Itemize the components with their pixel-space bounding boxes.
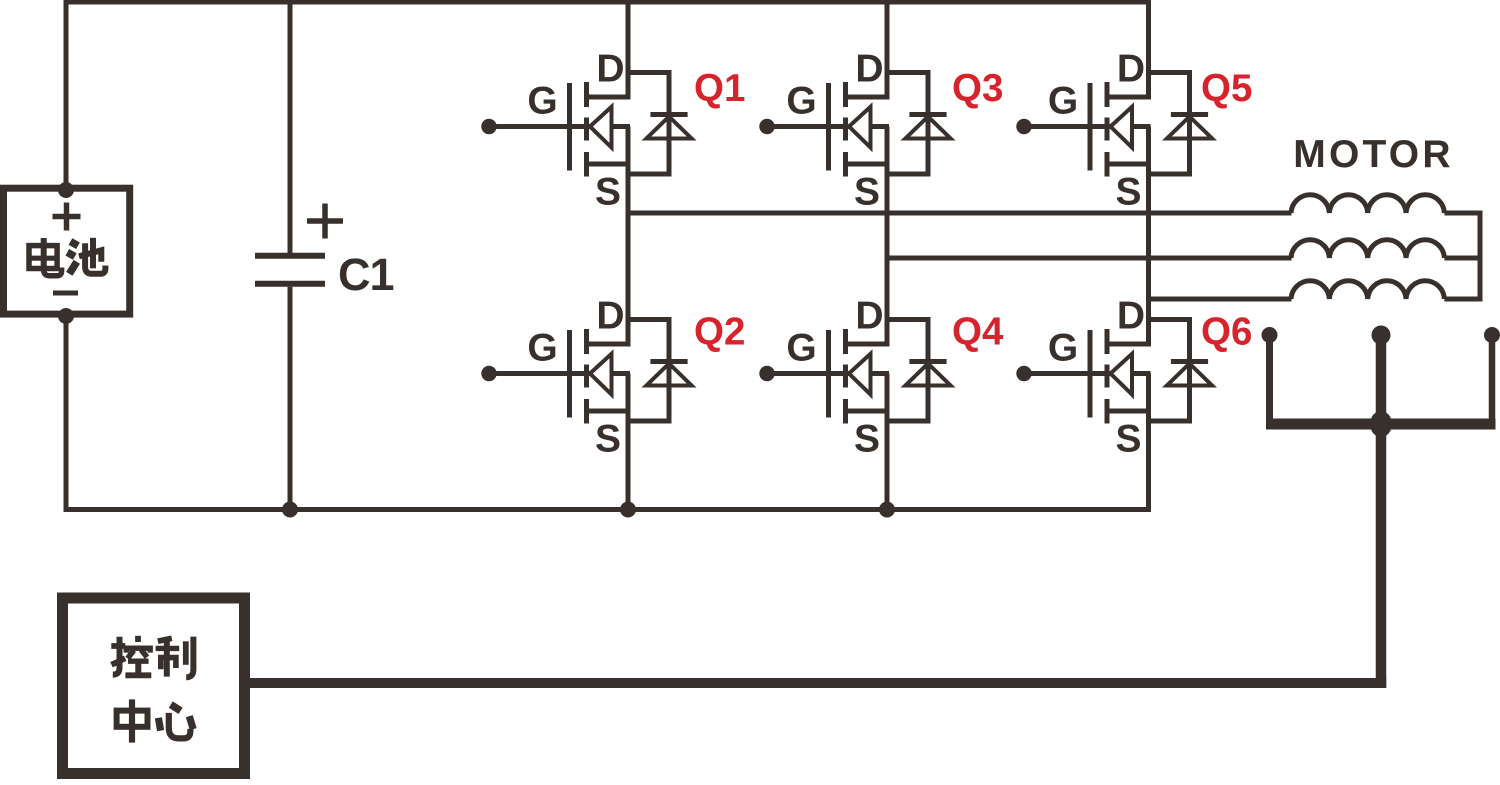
node Q1 gate terminal — [481, 119, 496, 134]
battery label 电 glyph — [27, 238, 62, 276]
wire Q5 gate lead — [1024, 124, 1151, 129]
wire winding C to star point — [1444, 297, 1482, 302]
C1 plus sign — [307, 204, 343, 239]
node Q4 gate terminal — [759, 366, 774, 381]
Q1 gate electrode bar — [567, 83, 572, 171]
control label 控 glyph — [111, 636, 151, 676]
svg-text:G: G — [786, 80, 816, 123]
Q5 gate electrode bar — [1088, 83, 1093, 171]
Q6 drain stub — [1107, 342, 1151, 347]
Q1 channel dashes — [584, 82, 589, 177]
transistor Q3 N-MOSFET — [759, 48, 1003, 214]
motor winding phase B inductor — [1291, 240, 1444, 258]
Q2 drain stub — [587, 342, 631, 347]
Q5 channel dashes — [1105, 82, 1110, 177]
body diode of Q4 — [887, 317, 951, 424]
body diode of Q3 — [887, 70, 951, 177]
node battery - terminal — [58, 308, 74, 324]
Q4 body arrow — [849, 354, 871, 395]
battery label 池 glyph — [67, 238, 105, 274]
wire battery negative to bottom bus — [64, 312, 69, 512]
svg-text:S: S — [595, 171, 621, 214]
body diode of Q1 — [628, 70, 692, 177]
node sense tap phase A — [1262, 327, 1278, 343]
Q5 body arrow — [1111, 107, 1133, 148]
Q2 body arrow — [590, 354, 612, 395]
node Q2 gate terminal — [481, 366, 496, 381]
battery minus sign — [53, 291, 78, 296]
wire Q3 drain from top bus — [885, 0, 890, 100]
svg-text:S: S — [854, 418, 880, 461]
svg-text:D: D — [855, 295, 883, 338]
wire winding A to star point — [1444, 211, 1482, 216]
wire sense bus horizontal — [1266, 419, 1496, 430]
node sense tap phase B — [1372, 326, 1391, 345]
wire Q6 source to bottom bus — [1146, 374, 1151, 513]
transistor Q1 N-MOSFET — [481, 48, 745, 214]
wire battery positive to top bus — [64, 0, 69, 192]
wire motor star point vertical — [1478, 211, 1483, 302]
svg-text:S: S — [595, 418, 621, 461]
wire winding B to star point — [1444, 256, 1482, 261]
Q4 drain stub — [846, 342, 890, 347]
control label 心 glyph — [158, 705, 193, 739]
Q5 drain stub — [1107, 95, 1151, 100]
wire C1 top — [288, 0, 293, 253]
node Q6 gate terminal — [1016, 366, 1031, 381]
svg-text:D: D — [1117, 295, 1145, 338]
battery 电池 — [4, 182, 130, 324]
svg-text:D: D — [1117, 48, 1145, 91]
Q4 source stub — [846, 409, 890, 414]
svg-text:G: G — [527, 327, 557, 370]
svg-text:Q1: Q1 — [694, 67, 745, 110]
svg-text:D: D — [596, 48, 624, 91]
wire phase B from Q3/Q4 node to motor — [887, 256, 1292, 261]
svg-text:D: D — [596, 295, 624, 338]
Q6 body arrow — [1111, 354, 1133, 395]
Q6 source stub — [1107, 409, 1151, 414]
Q4 channel dashes — [843, 329, 848, 424]
control label 制 glyph — [156, 637, 194, 678]
svg-text:S: S — [1115, 418, 1141, 461]
wire phase C from Q5/Q6 node to motor — [1149, 297, 1292, 302]
wire Q2 gate lead — [489, 371, 630, 376]
wire Q4 source to bottom bus — [885, 374, 890, 513]
transistor Q4 N-MOSFET — [759, 295, 1004, 461]
node Q4 source / V- junction — [879, 502, 895, 518]
battery plus sign — [53, 203, 81, 231]
body diode of Q5 — [1149, 70, 1213, 177]
Q4 gate electrode bar — [826, 330, 831, 418]
svg-text:G: G — [1048, 327, 1078, 370]
Q6 gate electrode bar — [1088, 330, 1093, 418]
control label 中 glyph — [117, 699, 148, 742]
svg-text:Q5: Q5 — [1201, 67, 1252, 110]
wire sense line phase B down to control wire — [1376, 335, 1387, 688]
motor winding phase C inductor — [1291, 281, 1444, 299]
svg-text:MOTOR: MOTOR — [1293, 133, 1453, 176]
C1 bottom plate — [255, 281, 325, 287]
wire Q2 source to bottom bus — [626, 374, 631, 513]
Q3 body arrow — [849, 107, 871, 148]
Q3 channel dashes — [843, 82, 848, 177]
Q2 gate electrode bar — [567, 330, 572, 418]
Q5 source stub — [1107, 162, 1151, 167]
Q2 channel dashes — [584, 329, 589, 424]
node Q2 source / V- junction — [620, 502, 636, 518]
wire control center to sense junction — [248, 678, 1387, 688]
wire Q1 source to Q2 drain — [626, 127, 631, 347]
svg-text:S: S — [1115, 171, 1141, 214]
wire sense line phase C — [1489, 335, 1496, 430]
svg-text:Q4: Q4 — [952, 311, 1004, 354]
Q1 drain stub — [587, 95, 631, 100]
transistor Q5 N-MOSFET — [1016, 48, 1252, 214]
node C1 / V- junction — [282, 502, 298, 518]
node Q5 gate terminal — [1016, 119, 1031, 134]
body diode of Q2 — [628, 317, 692, 424]
node sense bus junction — [1370, 411, 1392, 437]
motor winding phase A inductor — [1291, 195, 1444, 213]
wire C1 bottom — [288, 287, 293, 511]
node sense tap phase C — [1484, 327, 1500, 343]
Q6 channel dashes — [1105, 329, 1110, 424]
transistor Q2 N-MOSFET — [481, 295, 745, 461]
C1 top plate — [255, 253, 325, 259]
transistor Q6 N-MOSFET — [1016, 295, 1252, 461]
Q3 drain stub — [846, 95, 890, 100]
wire sense line phase A — [1266, 335, 1273, 430]
node Q3 gate terminal — [759, 119, 774, 134]
wire Q1 gate lead — [489, 124, 630, 129]
wire bottom bus V- rail — [64, 507, 1152, 512]
control unit 控制中心 box — [63, 598, 245, 774]
Q3 source stub — [846, 162, 890, 167]
wire Q5 source to Q6 drain — [1146, 127, 1151, 347]
Q1 body arrow — [590, 107, 612, 148]
svg-text:G: G — [786, 327, 816, 370]
Q3 gate electrode bar — [826, 83, 831, 171]
Q2 source stub — [587, 409, 631, 414]
body diode of Q6 — [1149, 317, 1213, 424]
svg-text:C1: C1 — [338, 249, 394, 300]
wire Q4 gate lead — [767, 371, 889, 376]
wire top bus V+ rail — [64, 0, 1152, 5]
wire phase A from Q1/Q2 node to motor — [628, 211, 1292, 216]
svg-text:Q2: Q2 — [694, 311, 745, 354]
svg-text:Q3: Q3 — [952, 67, 1003, 110]
wire Q6 gate lead — [1024, 371, 1151, 376]
capacitor C1 — [255, 0, 394, 511]
Q1 source stub — [587, 162, 631, 167]
svg-text:Q6: Q6 — [1201, 311, 1252, 354]
wire Q1 drain from top bus — [626, 0, 631, 100]
svg-text:G: G — [1048, 80, 1078, 123]
svg-text:S: S — [854, 171, 880, 214]
wire Q3 source to Q4 drain — [885, 127, 890, 347]
node battery + terminal — [58, 182, 74, 198]
svg-text:G: G — [527, 80, 557, 123]
wire Q3 gate lead — [767, 124, 889, 129]
wire Q5 drain from top bus — [1146, 0, 1151, 100]
svg-text:D: D — [855, 48, 883, 91]
